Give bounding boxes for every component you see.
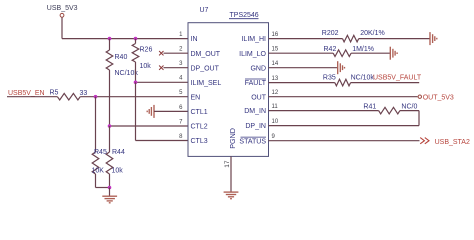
node junction top rail / R26 <box>134 37 138 41</box>
svg-text:10k: 10k <box>140 63 152 70</box>
ground (right) on GND pin 14 <box>338 61 345 74</box>
resistor R202 20K/1% on ILIM_HI <box>269 30 385 42</box>
svg-text:EN: EN <box>191 94 201 101</box>
svg-text:16: 16 <box>272 32 279 38</box>
wire stub to ground below R44 <box>109 188 111 197</box>
svg-text:11: 11 <box>272 104 279 110</box>
wire top rail USB_5V3 to pin 1 IN <box>62 38 188 40</box>
svg-text:FAULT: FAULT <box>245 80 267 87</box>
svg-text:DM_IN: DM_IN <box>244 108 266 115</box>
wire CTL2 pin 7 to R40/R44 vertical <box>110 125 189 127</box>
power symbol USB_5V3 <box>47 5 78 17</box>
svg-text:DP_IN: DP_IN <box>245 123 266 130</box>
svg-text:1M/1%: 1M/1% <box>352 46 374 53</box>
svg-text:R44: R44 <box>112 149 125 156</box>
wire USB5V_EN to R5 <box>7 96 57 98</box>
svg-text:GND: GND <box>250 65 266 72</box>
svg-text:10: 10 <box>272 119 279 125</box>
svg-text:7: 7 <box>179 119 183 125</box>
svg-text:R45: R45 <box>94 149 107 156</box>
resistor R40 NC/10k <box>106 39 138 77</box>
pin 2 DM_OUT no-connect stub <box>164 52 189 54</box>
svg-text:DM_OUT: DM_OUT <box>191 51 221 58</box>
svg-text:CTL2: CTL2 <box>191 124 208 131</box>
svg-text:13: 13 <box>272 76 279 82</box>
node junction R44 bottom / ground <box>108 186 112 190</box>
resistor R5 33 <box>50 89 88 100</box>
svg-text:6: 6 <box>179 105 183 111</box>
svg-text:ILIM_SEL: ILIM_SEL <box>191 80 222 87</box>
svg-text:USB5V_EN: USB5V_EN <box>8 90 45 97</box>
svg-text:R202: R202 <box>322 30 339 37</box>
svg-text:17: 17 <box>224 160 231 168</box>
ground below R44/R45 <box>102 196 117 203</box>
svg-text:U7: U7 <box>200 7 209 14</box>
svg-text:USB_STA2: USB_STA2 <box>435 139 470 146</box>
off-page connector USB_STA2 <box>420 138 470 146</box>
node junction top rail / R40 <box>108 37 112 41</box>
svg-text:OUT: OUT <box>251 94 267 101</box>
node junction CTL2 / R44 <box>108 124 112 128</box>
svg-text:OUT_5V3: OUT_5V3 <box>423 94 454 101</box>
resistor R41 NC/0 between DM_IN and DP_IN <box>269 103 418 114</box>
ground at PGND pin 17 <box>224 192 239 199</box>
port OUT_5V3 <box>418 94 454 101</box>
svg-text:8: 8 <box>179 134 183 140</box>
value label TPS2546 <box>229 12 259 19</box>
svg-text:3: 3 <box>179 61 183 67</box>
pin 17 PGND stub <box>230 156 232 192</box>
resistor R26 10k <box>132 39 152 70</box>
svg-text:ILIM_LO: ILIM_LO <box>239 51 266 58</box>
svg-text:15: 15 <box>272 47 279 53</box>
svg-text:USB5V_FAULT: USB5V_FAULT <box>373 75 422 82</box>
resistor R42 1M/1% on ILIM_LO <box>269 46 374 57</box>
svg-text:DP_OUT: DP_OUT <box>191 65 220 72</box>
ground (left) at CTL1 pin 6 <box>147 105 154 118</box>
svg-text:10K: 10K <box>92 167 105 174</box>
svg-text:9: 9 <box>272 134 276 140</box>
svg-text:10k: 10k <box>112 167 124 174</box>
svg-text:IN: IN <box>191 36 198 43</box>
resistor R44 10k <box>106 126 125 188</box>
svg-text:STATUS: STATUS <box>239 138 266 145</box>
svg-text:CTL3: CTL3 <box>191 138 208 145</box>
ground (right) on ILIM_HI <box>430 32 437 45</box>
svg-text:CTL1: CTL1 <box>191 109 208 116</box>
wire R45 bottom to R44 bottom <box>96 187 110 189</box>
resistor R35 NC/10k on FAULT <box>269 74 375 86</box>
svg-text:NC/10k: NC/10k <box>115 70 139 77</box>
svg-text:NC/0: NC/0 <box>401 103 417 110</box>
wire R42 to ground <box>351 52 390 54</box>
node junction ILIM_SEL / CTL3 vertical <box>134 81 138 85</box>
svg-text:R35: R35 <box>323 74 336 81</box>
ground (right) on ILIM_LO <box>390 47 397 60</box>
resistor R45 10K <box>92 97 107 188</box>
wire R35 to net end <box>351 82 420 84</box>
wire vertical ILIM_SEL node down to CTL3 pin 8 <box>135 82 137 140</box>
wire OUT pin 12 to port <box>269 96 418 98</box>
svg-text:R5: R5 <box>50 89 59 96</box>
svg-text:R42: R42 <box>324 46 337 53</box>
svg-text:ILIM_HI: ILIM_HI <box>241 36 266 43</box>
svg-text:NC/10k: NC/10k <box>351 74 375 81</box>
node junction EN / R45 <box>94 95 98 99</box>
wire R5 to EN pin 5 <box>80 96 188 98</box>
svg-text:PGND: PGND <box>228 128 237 149</box>
pin 3 DP_OUT no-connect stub <box>164 67 189 69</box>
wire GND pin 14 to ground <box>269 67 338 69</box>
svg-text:4: 4 <box>179 76 183 82</box>
IC U7 TPS2546 <box>188 7 269 156</box>
pin label STATUS (active low) <box>239 137 266 145</box>
svg-text:14: 14 <box>272 61 279 67</box>
pin label FAULT (active low) <box>245 79 267 87</box>
wire R40 bottom through EN crossing to CTL2 <box>109 70 111 126</box>
svg-text:1: 1 <box>179 32 183 38</box>
svg-text:R26: R26 <box>140 46 153 53</box>
svg-text:12: 12 <box>272 90 279 96</box>
wire STATUS pin 9 to off-page <box>269 140 420 142</box>
wire USB_5V3 vertical stub <box>61 17 63 38</box>
svg-text:R40: R40 <box>115 54 128 61</box>
svg-text:TPS2546: TPS2546 <box>230 12 259 19</box>
svg-text:R41: R41 <box>363 103 376 110</box>
wire R26 bottom to ILIM_SEL pin 4 <box>135 62 137 82</box>
wire CTL1 pin 6 to ground <box>154 110 188 112</box>
wire R202 to ground <box>359 38 430 40</box>
svg-text:USB_5V3: USB_5V3 <box>47 5 78 12</box>
svg-text:5: 5 <box>179 90 183 96</box>
svg-text:20K/1%: 20K/1% <box>360 30 385 37</box>
svg-text:2: 2 <box>179 47 183 53</box>
wire R41 around to DP_IN pin 10 <box>400 110 419 112</box>
